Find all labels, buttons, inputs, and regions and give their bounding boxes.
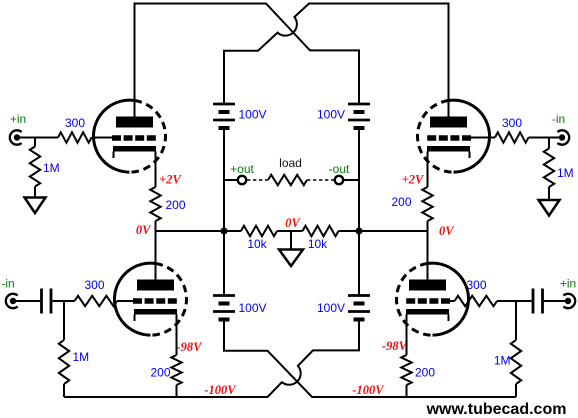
svg-text:300: 300: [466, 278, 486, 292]
ground (top-right): [539, 200, 560, 216]
resistor 1M (bottom-left): [59, 340, 69, 384]
svg-text:300: 300: [84, 278, 104, 292]
svg-text:+2V: +2V: [159, 173, 182, 187]
svg-text:100V: 100V: [317, 108, 345, 122]
resistor 200 (bottom-right): [401, 355, 411, 385]
svg-text:load: load: [279, 156, 302, 170]
terminal -in (top-right): [557, 130, 569, 144]
wire: 200 to rail (bottom-left): [176, 385, 178, 397]
wire: left battery to right -100V rail: [224, 320, 516, 398]
resistor 200 (top-left): [150, 187, 160, 221]
terminal +in (top-left): [10, 130, 22, 144]
wire: +out stub: [224, 179, 237, 181]
wire: +in to capacitor: [544, 300, 569, 302]
resistor 1M (top-right): [544, 149, 554, 188]
wire: 200 to 0V node (top-right): [427, 221, 429, 231]
wire: 1M to rail (bottom-right): [515, 384, 517, 397]
wire: right battery to left -100V rail (hop over): [64, 320, 359, 398]
svg-text:100V: 100V: [239, 301, 267, 315]
wire: right rail between batteries: [358, 128, 360, 296]
capacitor (bottom-right): [533, 289, 543, 314]
wire: cathode lead (top-right): [427, 152, 429, 188]
svg-text:-out: -out: [329, 162, 350, 176]
resistor 1M (bottom-right): [511, 340, 521, 384]
svg-text:0V: 0V: [285, 216, 301, 230]
terminal -in (bottom-left): [6, 294, 18, 308]
wire: +in to 300 resistor: [17, 137, 58, 139]
terminal -out: [335, 176, 343, 184]
triode (top-left): [93, 100, 165, 172]
terminal +out: [238, 176, 246, 184]
wire: 200 to 0V node (top-left): [155, 221, 157, 231]
battery 100V (upper-right): [348, 104, 370, 128]
resistor 300 (top-right): [495, 132, 529, 142]
wire: capacitor to 300 (bottom-right): [497, 300, 532, 302]
svg-text:-98V: -98V: [177, 340, 204, 354]
svg-text:www.tubecad.com: www.tubecad.com: [426, 401, 567, 418]
resistor 200 (top-right): [422, 187, 432, 221]
wire: right tube plate lead + top rail to left battery rail (hop over): [224, 4, 449, 117]
wire: mid rail (left): [156, 230, 242, 232]
svg-text:-100V: -100V: [204, 383, 237, 397]
capacitor (bottom-left): [42, 289, 52, 314]
battery 100V (lower-right): [348, 296, 370, 320]
svg-text:200: 200: [391, 195, 411, 209]
resistor 1M (top-left): [30, 147, 40, 187]
wire: 1M tap (bottom-left): [63, 301, 65, 340]
wire: 1M tap (bottom-right): [515, 301, 517, 340]
ground (top-left): [25, 198, 46, 214]
svg-text:1M: 1M: [494, 354, 511, 368]
resistor 300 (bottom-left): [75, 296, 118, 306]
svg-text:+2V: +2V: [402, 173, 425, 187]
svg-text:+out: +out: [230, 162, 254, 176]
wire: mid rail (right): [339, 230, 428, 232]
wire: cathode lead (top-left): [155, 152, 157, 188]
wire: -out stub: [344, 179, 359, 181]
junction dot (left rail / mid rail): [221, 228, 228, 235]
wire: left rail between batteries: [223, 128, 225, 296]
wire: left tube plate lead + top rail to right battery rail: [135, 4, 360, 117]
resistor 300 (top-left): [58, 132, 92, 142]
wire: 200 to rail (bottom-right): [406, 385, 408, 397]
svg-text:+in: +in: [560, 277, 576, 291]
svg-text:300: 300: [502, 116, 522, 130]
wire: cathode lead (bottom-right): [406, 315, 408, 356]
wire: plate lead (bottom-left): [155, 231, 157, 280]
wire: grid lead (bottom-right): [450, 300, 455, 302]
wire: -in to capacitor: [13, 300, 41, 302]
svg-text:-100V: -100V: [352, 383, 385, 397]
svg-text:200: 200: [415, 366, 435, 380]
svg-text:1M: 1M: [73, 350, 90, 364]
svg-text:+in: +in: [10, 112, 26, 126]
svg-text:100V: 100V: [239, 108, 267, 122]
svg-text:1M: 1M: [557, 166, 574, 180]
wire: 1M to rail (bottom-left): [63, 384, 65, 397]
svg-text:1M: 1M: [43, 161, 60, 175]
svg-text:-98V: -98V: [382, 339, 409, 353]
resistor load: [268, 175, 307, 185]
resistor 200 (bottom-left): [171, 355, 181, 385]
svg-text:200: 200: [166, 198, 186, 212]
wire: 1M to ground (top-left): [34, 187, 36, 198]
wire: plate lead (bottom-right): [427, 231, 429, 280]
battery 100V (lower-left): [213, 296, 235, 320]
resistor 10k (right): [303, 226, 339, 236]
wire: 1M tap (top-left): [34, 138, 36, 147]
svg-text:-in: -in: [1, 277, 14, 291]
svg-text:300: 300: [65, 116, 85, 130]
svg-text:200: 200: [150, 366, 170, 380]
triode (bottom-left): [114, 263, 186, 335]
wire: grid lead (bottom-left): [117, 300, 134, 302]
wire: mid rail (center): [277, 230, 303, 232]
svg-text:100V: 100V: [317, 301, 345, 315]
wire: dashed to load (left): [247, 179, 268, 181]
terminal +in (bottom-right): [563, 294, 575, 308]
junction dot (right rail / mid rail): [356, 228, 363, 235]
triode (bottom-right): [397, 263, 469, 335]
wire: 1M tap (top-right): [548, 138, 550, 149]
wire: capacitor to 300 (bottom-left): [53, 300, 75, 302]
svg-text:0V: 0V: [136, 223, 152, 237]
resistor 300 (bottom-right): [455, 296, 498, 306]
wire: cathode lead (bottom-left): [176, 315, 178, 356]
svg-text:-in: -in: [552, 112, 565, 126]
svg-text:0V: 0V: [439, 224, 455, 238]
svg-text:10k: 10k: [247, 237, 267, 251]
wire: grid lead (top-right): [471, 137, 496, 139]
resistor 10k (left): [241, 226, 277, 236]
wire: dashed to load (right): [307, 179, 334, 181]
wire: 1M to ground (top-right): [548, 187, 550, 200]
triode (top-right): [418, 100, 490, 172]
ground (center): [290, 231, 292, 250]
battery 100V (upper-left): [213, 104, 235, 128]
svg-text:10k: 10k: [308, 237, 328, 251]
wire: grid lead (top-left): [92, 137, 113, 139]
wire: -in to 300 resistor: [529, 137, 563, 139]
